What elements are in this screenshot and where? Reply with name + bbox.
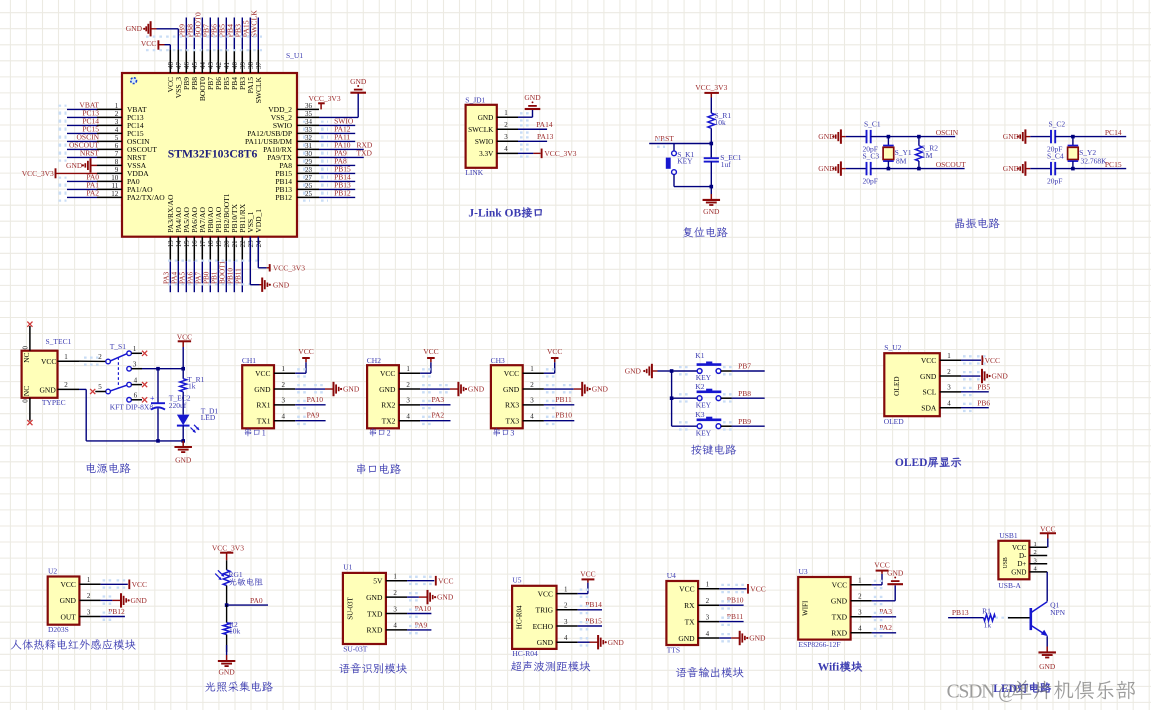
svg-text:34: 34 — [305, 118, 313, 126]
svg-text:GND: GND — [131, 596, 148, 605]
svg-text:PA4: PA4 — [170, 271, 178, 284]
MCU left pin 6 OSCOUT — [59, 141, 158, 155]
svg-text:4: 4 — [282, 412, 286, 420]
svg-text:USB: USB — [1003, 557, 1009, 568]
svg-text:GND: GND — [218, 667, 235, 676]
wire OLED SCL net PB5 — [961, 382, 990, 395]
wire U3 pin4 net PA2 — [872, 623, 896, 636]
svg-text:K3: K3 — [695, 410, 704, 419]
svg-text:K2: K2 — [695, 382, 704, 391]
svg-text:4: 4 — [706, 630, 710, 638]
label below 串口1 — [245, 428, 260, 436]
MCU bottom pin 13 PA3/RX/AO — [162, 194, 175, 292]
svg-text:4: 4 — [115, 126, 119, 134]
svg-text:VCC: VCC — [41, 357, 56, 366]
wire CH1 TX net PA9 — [295, 411, 325, 424]
ground GND OSCOUT cap — [818, 161, 846, 175]
connector TEC1 TYPEC — [22, 337, 72, 407]
ground GND keys — [625, 364, 672, 378]
svg-text:CSDN @: CSDN @ — [947, 681, 1015, 702]
wire JD1 pin1 to GND — [518, 109, 533, 120]
switch T_S1 KFT DIP-8X8 — [98, 342, 153, 411]
svg-text:VCC: VCC — [298, 347, 313, 356]
MCU top pin 43 PB7 — [202, 18, 215, 90]
power VCC U1 pin1 — [407, 576, 453, 586]
ground GND U1 pin2 — [407, 593, 427, 600]
MCU bottom pin 15 PA5/AO — [178, 207, 191, 293]
svg-text:TXD: TXD — [357, 148, 373, 157]
MCU bottom pin 19 PB1/AO — [210, 206, 223, 292]
svg-text:OUT: OUT — [60, 612, 76, 621]
svg-text:RXD: RXD — [831, 629, 847, 638]
svg-text:2: 2 — [706, 597, 710, 605]
junction node NRST — [710, 142, 714, 146]
svg-text:28: 28 — [305, 166, 313, 174]
svg-text:U1: U1 — [343, 563, 352, 572]
wire U3 pin3 net PA3 — [872, 607, 896, 620]
svg-text:T_S1: T_S1 — [110, 342, 127, 351]
svg-text:220uf: 220uf — [169, 401, 187, 410]
ground GND CH2 — [457, 382, 459, 396]
label below 串口2 — [370, 428, 385, 436]
power VCC U3 pin1 — [872, 561, 890, 589]
svg-text:WIFI: WIFI — [802, 600, 810, 616]
no-connect marks T_S1 — [90, 351, 147, 403]
svg-text:1: 1 — [282, 365, 286, 373]
svg-text:32.768K: 32.768K — [1081, 156, 1108, 165]
svg-text:2: 2 — [393, 589, 397, 597]
power VCC U5 pin1 — [578, 569, 596, 597]
power VCC CH1 — [298, 347, 313, 358]
svg-text:VCC_3V3: VCC_3V3 — [273, 264, 305, 273]
svg-text:HC-R04: HC-R04 — [516, 605, 524, 629]
svg-text:VDD_1: VDD_1 — [254, 209, 263, 233]
connector CH3 serial — [491, 356, 544, 429]
svg-text:OSCIN: OSCIN — [936, 128, 959, 137]
svg-text:17: 17 — [199, 240, 207, 248]
svg-text:HC-R04: HC-R04 — [512, 649, 538, 658]
svg-text:GND: GND — [920, 372, 937, 381]
power VCC_3V3 reset — [695, 83, 727, 97]
MCU right pin 33 PA12/USB/DP — [247, 124, 355, 138]
title PIR module — [11, 639, 136, 649]
wire OLED GND — [961, 372, 986, 379]
svg-text:VCC: VCC — [60, 580, 75, 589]
wire node to R2 — [226, 605, 228, 623]
svg-text:PB0: PB0 — [202, 271, 210, 284]
svg-text:8: 8 — [115, 158, 119, 166]
ground GND at MCU pin 8 VSSA — [66, 158, 97, 172]
MCU top pin 41 PB5 — [218, 18, 231, 90]
MCU left pin 11 PA1/AO — [59, 181, 154, 195]
wire switch pin3 to VCC rail — [131, 368, 183, 370]
connector CH1 serial — [242, 356, 295, 429]
svg-text:PA3: PA3 — [432, 395, 445, 404]
svg-text:U3: U3 — [799, 567, 808, 576]
ground GND at MCU pin 35 VSS_2 — [319, 77, 367, 118]
svg-text:33: 33 — [305, 126, 313, 134]
svg-text:3: 3 — [282, 397, 286, 405]
svg-text:PA6: PA6 — [186, 271, 194, 284]
svg-text:2: 2 — [530, 381, 534, 389]
svg-text:TX1: TX1 — [257, 416, 271, 425]
svg-text:LED: LED — [201, 413, 216, 422]
svg-text:D+: D+ — [1017, 560, 1026, 568]
LED T_D1 — [177, 407, 219, 433]
svg-text:PA2: PA2 — [86, 189, 99, 198]
svg-text:VCC: VCC — [547, 347, 562, 356]
svg-text:PB12: PB12 — [275, 193, 292, 202]
svg-text:S_U1: S_U1 — [286, 51, 303, 60]
svg-text:10k: 10k — [229, 627, 241, 636]
wire TYPEC pin1 to switch — [79, 358, 106, 365]
svg-text:VCC: VCC — [132, 580, 147, 589]
wire key to bottom — [674, 175, 711, 187]
svg-text:PA13: PA13 — [537, 132, 554, 141]
wire OLED VCC — [961, 355, 1000, 365]
MCU U1 STM32F103C8T6 component box — [122, 73, 297, 237]
TYPEC pin 2 — [58, 381, 80, 389]
ground GND JD1 — [525, 108, 541, 110]
svg-text:PA10: PA10 — [415, 604, 432, 613]
ground GND OSCIN cap — [818, 129, 846, 143]
module U2 D203S — [48, 566, 101, 634]
wire U5 pin3 net PB15 — [578, 616, 602, 629]
push button K1 KEY — [695, 351, 721, 382]
svg-text:NRST: NRST — [80, 149, 100, 158]
svg-text:3: 3 — [115, 118, 119, 126]
svg-text:VCC: VCC — [985, 356, 1000, 365]
wire VCC to R1 — [710, 98, 712, 114]
push button K3 KEY — [695, 410, 721, 438]
svg-text:TYPEC: TYPEC — [42, 398, 66, 407]
svg-text:GND: GND — [749, 634, 766, 643]
connector USB1 USB-A — [998, 531, 1047, 590]
svg-text:GND: GND — [254, 385, 271, 394]
svg-text:44: 44 — [199, 62, 207, 70]
svg-text:VCC: VCC — [921, 356, 936, 365]
svg-text:3: 3 — [706, 613, 710, 621]
svg-text:6: 6 — [115, 142, 119, 150]
svg-text:GND: GND — [608, 638, 625, 647]
MCU top pin 42 PB6 — [210, 18, 223, 90]
power VCC U2 pin1 — [101, 580, 147, 590]
connector CH2 serial — [367, 356, 420, 429]
svg-text:ECHO: ECHO — [533, 622, 554, 631]
power VCC USB — [1040, 524, 1056, 547]
svg-text:PB13: PB13 — [952, 608, 969, 617]
svg-text:11: 11 — [112, 182, 119, 190]
junction dots — [887, 135, 891, 139]
wire U4 pin2 net PB10 — [719, 596, 743, 609]
wire PC14 row — [1055, 136, 1126, 138]
svg-text:2: 2 — [504, 121, 508, 129]
ground GND U5 pin4 — [578, 638, 598, 645]
svg-text:TRIG: TRIG — [536, 606, 554, 615]
wire VCC rail down — [182, 369, 184, 379]
svg-text:VCC: VCC — [380, 369, 395, 378]
svg-text:20: 20 — [223, 240, 231, 248]
resistor S_R1 10k — [708, 111, 732, 128]
svg-text:42: 42 — [215, 62, 223, 70]
svg-text:PA14: PA14 — [536, 120, 553, 129]
MCU right pin 32 PA11/USB/DM — [245, 132, 355, 146]
selection marks bottom — [168, 260, 262, 262]
MCU right pin 27 PB14 — [275, 172, 355, 186]
wire OSCOUT row — [871, 168, 965, 170]
svg-text:9: 9 — [115, 166, 119, 174]
svg-text:PA2: PA2 — [432, 411, 445, 420]
ground GND U3 pin2 — [872, 568, 904, 604]
transistor Q1 NPN — [1031, 600, 1066, 636]
svg-text:STM32F103C8T6: STM32F103C8T6 — [168, 148, 258, 161]
svg-text:KFT DIP-8X8: KFT DIP-8X8 — [110, 403, 154, 412]
svg-text:3: 3 — [133, 360, 137, 368]
photoresistor RG1 — [215, 570, 263, 586]
wire JD1 pin2 net PA14 — [518, 120, 553, 133]
svg-text:3.3V: 3.3V — [479, 150, 494, 158]
MCU bottom pin 22 PB11/RX — [234, 203, 247, 292]
wire CH1 VCC — [295, 359, 306, 377]
MCU bottom pin 18 PB0/AO — [202, 206, 215, 292]
svg-text:31: 31 — [305, 142, 313, 150]
svg-text:GND: GND — [592, 385, 609, 394]
svg-text:TTS: TTS — [667, 645, 680, 654]
title ultrasonic module — [511, 661, 590, 671]
svg-text:PA3: PA3 — [879, 607, 892, 616]
wire CH2 TX net PA2 — [420, 411, 450, 424]
svg-text:VCC_3V3: VCC_3V3 — [212, 544, 244, 553]
svg-text:PB12: PB12 — [108, 607, 125, 616]
svg-text:CH2: CH2 — [367, 356, 381, 365]
MCU left pin 12 PA2/TX/AO — [59, 189, 166, 203]
svg-text:3: 3 — [564, 618, 568, 626]
svg-text:0: 0 — [22, 399, 30, 403]
svg-text:NC: NC — [22, 386, 31, 396]
wire R1 to Q1 base — [995, 617, 1029, 619]
wire R1 to node — [710, 128, 712, 158]
svg-text:2: 2 — [387, 428, 391, 437]
svg-text:16: 16 — [191, 240, 199, 248]
svg-text:S_C1: S_C1 — [864, 119, 881, 128]
svg-text:1k: 1k — [984, 621, 992, 630]
svg-text:PA10: PA10 — [307, 395, 324, 404]
svg-text:PB15: PB15 — [585, 616, 602, 625]
wire CH2 GND — [420, 385, 458, 392]
svg-text:PC14: PC14 — [1105, 128, 1122, 137]
svg-text:PB10: PB10 — [226, 268, 234, 284]
svg-text:TXD: TXD — [832, 613, 848, 622]
svg-text:5: 5 — [115, 134, 119, 142]
svg-text:SWCLK: SWCLK — [254, 76, 263, 103]
svg-text:10k: 10k — [715, 118, 727, 127]
svg-text:SWIO: SWIO — [475, 138, 493, 146]
module U5 HC-R04 — [512, 576, 578, 659]
svg-text:SCL: SCL — [923, 388, 937, 397]
title key circuit — [691, 444, 736, 455]
wire CH1 RX net PA10 — [295, 395, 325, 408]
MCU right pin 29 PA8 — [279, 156, 355, 170]
svg-text:R1: R1 — [982, 607, 991, 616]
svg-text:29: 29 — [305, 158, 313, 166]
svg-text:4: 4 — [947, 399, 951, 407]
wire CH2 VCC — [420, 359, 431, 377]
wire K2 to net PB8 — [721, 389, 765, 402]
title reset circuit — [683, 227, 728, 238]
svg-text:PB12: PB12 — [334, 188, 351, 197]
svg-text:NC: NC — [22, 353, 31, 363]
wire R2 to GND — [226, 635, 228, 661]
svg-text:18: 18 — [207, 240, 215, 248]
MCU top pin 47 VSS_3 — [174, 49, 183, 98]
title voice output — [676, 667, 744, 677]
svg-text:22: 22 — [239, 240, 247, 248]
svg-text:25: 25 — [305, 190, 313, 198]
module U4 TTS — [666, 571, 719, 655]
svg-text:41: 41 — [223, 62, 231, 70]
MCU left pin 10 PA0 — [59, 173, 140, 187]
svg-text:VCC_3V3: VCC_3V3 — [544, 149, 576, 158]
svg-text:2: 2 — [115, 110, 119, 118]
svg-text:PA9: PA9 — [307, 411, 320, 420]
svg-text:20pF: 20pF — [863, 177, 878, 186]
TYPEC top pin 0 — [22, 322, 33, 351]
MCU top pin 39 PB3 — [234, 18, 247, 90]
svg-text:TXD: TXD — [367, 609, 383, 618]
svg-text:GND: GND — [366, 593, 383, 602]
svg-text:GND: GND — [478, 114, 494, 122]
ground GND Q1 — [1038, 652, 1056, 670]
svg-text:J-Link OB: J-Link OB — [468, 208, 521, 220]
svg-text:PB8: PB8 — [738, 389, 751, 398]
svg-text:10: 10 — [111, 174, 119, 182]
svg-text:GND: GND — [468, 385, 485, 394]
svg-text:S_C4: S_C4 — [1047, 151, 1064, 160]
wire CH1 GND — [295, 385, 333, 392]
svg-text:2: 2 — [98, 353, 102, 361]
wire U4 pin3 net PB11 — [719, 612, 743, 625]
svg-text:OLED: OLED — [884, 417, 905, 426]
svg-text:PC15: PC15 — [1105, 160, 1122, 169]
wire Q1 emitter to GND — [1046, 636, 1048, 652]
svg-text:SDA: SDA — [921, 403, 937, 412]
svg-text:30: 30 — [305, 150, 313, 158]
svg-text:2: 2 — [282, 381, 286, 389]
MCU bottom pin 23 VSS_1 — [246, 211, 255, 261]
svg-text:12: 12 — [111, 190, 119, 198]
svg-text:46: 46 — [183, 62, 191, 70]
svg-text:20pF: 20pF — [1047, 177, 1062, 186]
power VCC_3V3 at MCU pin 24 — [270, 264, 306, 273]
svg-text:43: 43 — [207, 62, 215, 70]
svg-text:1: 1 — [504, 109, 508, 117]
svg-text:GND: GND — [887, 568, 904, 577]
wire PC15 row — [1055, 168, 1126, 170]
svg-text:BOOT1: BOOT1 — [218, 260, 226, 284]
svg-text:39: 39 — [239, 62, 247, 70]
svg-text:RXD: RXD — [367, 626, 383, 635]
svg-text:KEY: KEY — [677, 157, 693, 166]
ground GND light — [218, 661, 236, 676]
wire U2 pin3 net PB12 — [101, 607, 125, 620]
svg-text:PB11: PB11 — [555, 395, 572, 404]
display U2 OLED box — [884, 343, 961, 426]
power VCC_3V3 light — [212, 544, 244, 561]
svg-text:PA0: PA0 — [250, 596, 263, 605]
svg-text:35: 35 — [305, 110, 313, 118]
svg-text:1: 1 — [406, 365, 410, 373]
svg-text:1: 1 — [87, 576, 91, 584]
svg-text:S_JD1: S_JD1 — [465, 96, 485, 105]
module U3 ESP8266-12F — [798, 567, 872, 649]
svg-text:RX1: RX1 — [256, 401, 270, 410]
svg-text:GND: GND — [175, 455, 192, 464]
svg-text:1: 1 — [133, 345, 137, 353]
ground GND PC15 cap — [1003, 161, 1031, 175]
svg-text:SWCLK: SWCLK — [250, 10, 259, 38]
svg-text:PA3: PA3 — [162, 271, 170, 284]
svg-text:1: 1 — [530, 365, 534, 373]
svg-text:21: 21 — [231, 240, 239, 248]
selection marks top — [146, 35, 262, 37]
svg-text:PA5: PA5 — [178, 271, 186, 284]
svg-text:VCC: VCC — [580, 569, 595, 578]
svg-text:2: 2 — [406, 381, 410, 389]
svg-text:GND: GND — [524, 93, 541, 102]
svg-text:USB1: USB1 — [999, 531, 1018, 540]
svg-text:PB11: PB11 — [234, 268, 242, 284]
node PA0 — [225, 596, 268, 607]
net label NRST — [649, 134, 711, 147]
MCU right pin 30 PA9/TX — [267, 148, 372, 162]
svg-text:3: 3 — [947, 384, 951, 392]
svg-text:GND: GND — [1039, 662, 1056, 671]
ground GND reset — [703, 187, 721, 216]
svg-text:VCC: VCC — [832, 581, 847, 590]
svg-text:USB-A: USB-A — [998, 581, 1021, 590]
svg-text:3: 3 — [87, 608, 91, 616]
svg-text:5: 5 — [98, 383, 102, 391]
svg-text:LINK: LINK — [465, 168, 483, 177]
svg-text:40: 40 — [231, 62, 239, 70]
svg-text:ESP8266-12F: ESP8266-12F — [799, 640, 841, 649]
wire LED to rail — [182, 426, 184, 441]
MCU top pin 40 PB4 — [226, 18, 239, 90]
ground GND CH3 — [581, 382, 583, 396]
MCU bottom pin 14 PA4/AO — [170, 207, 183, 293]
svg-text:2: 2 — [858, 593, 862, 601]
ground GND at MCU pin 47 VSS_3 — [126, 21, 179, 49]
svg-text:S_U2: S_U2 — [884, 343, 901, 352]
svg-text:GND: GND — [40, 385, 57, 394]
title serial circuit — [357, 464, 401, 475]
svg-text:VCC: VCC — [255, 369, 270, 378]
wire K3 to net PB9 — [721, 417, 765, 430]
svg-text:GND: GND — [537, 638, 554, 647]
svg-text:+: + — [150, 394, 155, 403]
TYPEC bottom pin 0 — [22, 398, 33, 425]
svg-text:4: 4 — [406, 412, 410, 420]
svg-text:1: 1 — [64, 353, 68, 361]
TYPEC pin 1 — [58, 353, 80, 361]
svg-text:SU-03T: SU-03T — [346, 596, 354, 619]
resistor T_R1 1k — [180, 375, 205, 392]
ground GND OLED — [981, 369, 983, 383]
svg-text:PA2: PA2 — [879, 623, 892, 632]
svg-text:RX: RX — [684, 601, 695, 610]
wire R1 to LED — [182, 392, 184, 415]
svg-text:14: 14 — [175, 240, 183, 248]
